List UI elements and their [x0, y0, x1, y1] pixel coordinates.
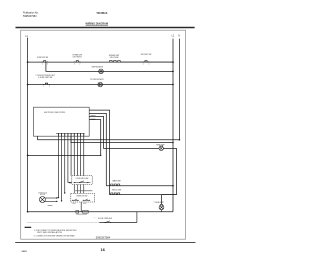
svg-text:2: 2	[49, 86, 50, 88]
svg-text:UNIT SWITCH: UNIT SWITCH	[73, 56, 83, 58]
indicator light PL2	[98, 82, 103, 87]
svg-text:Publication No.: Publication No.	[23, 11, 39, 15]
wire door open switch row	[99, 222, 137, 224]
switch oven door A inside B2	[72, 199, 79, 201]
junction L2 rail	[172, 142, 174, 144]
junction rail1-L2	[172, 61, 174, 63]
connector TB1 on bottom rail	[76, 211, 79, 214]
switch door latch inside B1	[74, 182, 91, 184]
junction bake-L2	[172, 185, 174, 187]
svg-text:MOTOR: MOTOR	[40, 194, 46, 196]
note header	[25, 227, 32, 228]
junction rail3-L2	[172, 84, 174, 86]
svg-text:SURF INDICATOR: SURF INDICATOR	[92, 65, 104, 68]
title underline	[86, 24, 108, 26]
junction L1 feeder mid	[27, 155, 29, 157]
svg-text:SURF UNIT SW: SURF UNIT SW	[141, 54, 152, 56]
svg-text:SURF UNIT SW: SURF UNIT SW	[37, 57, 48, 59]
svg-text:BROIL UNIT: BROIL UNIT	[112, 189, 122, 191]
svg-text:2. CONNECTOR SHOWN VIEWED FROM: 2. CONNECTOR SHOWN VIEWED FROM REAR	[34, 234, 76, 237]
header rule	[16, 27, 195, 29]
wire U1 bottom-left to L2 rail	[71, 136, 173, 142]
electronic oven control U1 box	[34, 107, 90, 136]
pin labels U1 right side	[91, 115, 96, 116]
label motor plug	[48, 205, 53, 206]
svg-text:2: 2	[47, 64, 48, 66]
switch S1 left-front surface unit	[44, 61, 46, 62]
terminal motor lead 1	[56, 197, 57, 198]
wire rail3 L1 to L2	[28, 84, 173, 86]
svg-text:*: *	[94, 218, 95, 220]
junction rail2-L2	[172, 71, 174, 73]
svg-text:1: 1	[42, 64, 43, 66]
wire bake row	[106, 185, 173, 187]
wires B1 to B2	[73, 185, 75, 194]
svg-text:RT SURF INDICATOR: RT SURF INDICATOR	[90, 78, 104, 81]
svg-text:8 IN. 2100W: 8 IN. 2100W	[110, 57, 119, 59]
junction bottom rail-L1 feeder	[27, 211, 29, 213]
wire motor lead 2	[45, 200, 57, 202]
junction control L1 input	[100, 155, 101, 156]
wire labels above B2	[75, 190, 92, 191]
lamp DS1 oven lamp	[159, 145, 163, 150]
svg-text:OVEN DR SW: OVEN DR SW	[76, 196, 87, 198]
svg-text:1: 1	[74, 64, 75, 66]
junction door latch input	[69, 182, 71, 184]
svg-text:TEF366AS: TEF366AS	[96, 11, 107, 15]
wire lamp DS2 to bottom rail	[161, 210, 163, 212]
switch door open	[105, 221, 109, 223]
element E1 surface unit	[109, 61, 121, 63]
schematic border box	[21, 30, 186, 239]
wire B2 to bottom rail	[80, 202, 82, 212]
wire L1 feeder vertical	[27, 38, 29, 212]
terminal motor lead 2	[56, 201, 57, 202]
motor M1 door lock	[39, 197, 45, 203]
wire bottom rail L1 to L2	[28, 211, 173, 213]
svg-text:5995367984: 5995367984	[23, 14, 37, 18]
junction N rail	[179, 139, 181, 141]
svg-text:BAKE UNIT: BAKE UNIT	[113, 179, 122, 182]
indicator light PL1	[99, 69, 104, 74]
wire harness 4 into door latch box	[68, 182, 72, 184]
element E2 bake unit	[110, 184, 120, 186]
door latch switch box B1	[72, 176, 92, 185]
lamp DS2 oven lamp	[159, 204, 164, 210]
harness wires from connector P1	[57, 136, 59, 197]
wire U1 exit to oven lamp row	[89, 116, 159, 148]
svg-text:16: 16	[101, 248, 105, 252]
wire door open switch row faint left	[27, 222, 100, 224]
svg-text:* OVEN LAMP: * OVEN LAMP	[153, 201, 164, 204]
svg-text:2: 2	[79, 64, 80, 66]
wire U1 pin to N rail	[38, 136, 180, 140]
wire broil row	[110, 194, 177, 196]
wire L1 rail to control	[28, 154, 101, 156]
connector P1 comb on U1 bottom edge	[57, 133, 59, 136]
svg-text:2: 2	[148, 64, 149, 66]
svg-text:1: 1	[143, 64, 144, 66]
svg-text:1: 1	[43, 86, 44, 88]
wire rail2 from switch S1 output	[46, 62, 173, 71]
wire door switch to bottom rail	[136, 212, 138, 223]
connector TB2 on bottom rail	[83, 211, 89, 214]
svg-text:ELECTRONIC OVEN CONTROL: ELECTRONIC OVEN CONTROL	[44, 112, 66, 114]
junction rail3-L1 feeder	[27, 84, 29, 86]
terminal marks below B2	[72, 202, 75, 205]
wire motor lead 1	[45, 197, 56, 199]
terminal harness wire 3	[64, 192, 65, 193]
oven light switch box B2	[71, 193, 95, 202]
junction rail1-L1 feeder	[27, 61, 29, 63]
svg-text:5995367984: 5995367984	[96, 238, 111, 240]
wire lamp DS1 to drop	[163, 147, 176, 149]
element E3 broil unit	[110, 193, 120, 195]
wire N vertical	[178, 39, 180, 140]
svg-text:& SURF UNIT SW: & SURF UNIT SW	[38, 77, 52, 79]
switch S4 left-front surface unit	[45, 83, 47, 84]
switch S2 right-rear surface unit	[76, 61, 78, 62]
footer rule	[15, 242, 195, 244]
terminal harness wire 2	[61, 200, 62, 201]
switch oven door B inside B2	[83, 199, 90, 201]
wire U1 exit to bake riser	[89, 113, 106, 185]
wire L2 vertical	[172, 39, 174, 212]
svg-text:08/01: 08/01	[22, 251, 28, 253]
wire U1 exit to L1 rail	[89, 120, 101, 156]
terminal harness wire 1	[58, 197, 59, 198]
switch S3 surface unit	[145, 61, 147, 62]
svg-text:UNIT. SEE INSTALLATION: UNIT. SEE INSTALLATION	[37, 231, 63, 234]
svg-text:DOOR OPEN SW: DOOR OPEN SW	[98, 218, 112, 220]
wire U1 exit to broil riser	[89, 110, 109, 195]
svg-text:DOOR LATCH SW: DOOR LATCH SW	[76, 177, 89, 180]
wire lamp drop to DS2	[162, 148, 177, 204]
wire rail1 L1 to L2	[28, 61, 173, 63]
svg-text:OVEN LAMP: OVEN LAMP	[156, 143, 165, 146]
